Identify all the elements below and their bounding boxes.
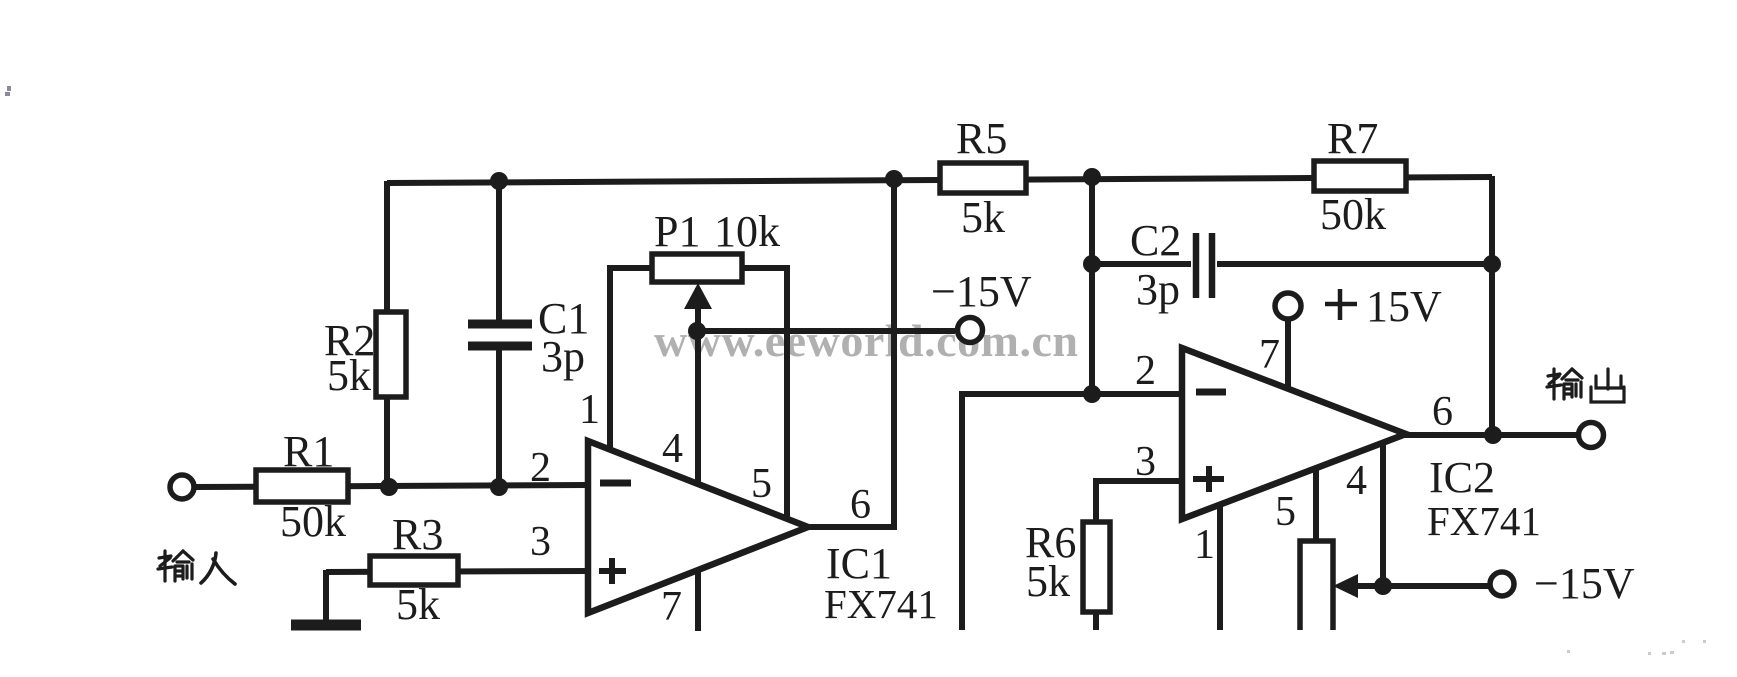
- resistor R1: [256, 470, 348, 502]
- capacitor C2 plates: [1196, 233, 1212, 298]
- wire -15V to P2 arrow: [1356, 583, 1489, 589]
- svg-text:C2: C2: [1130, 216, 1181, 265]
- svg-text:6: 6: [1432, 389, 1453, 435]
- wire C1 bottom vertical: [496, 343, 502, 489]
- svg-text:4: 4: [1346, 458, 1367, 504]
- terminal output: [1579, 423, 1604, 448]
- svg-text:5: 5: [751, 461, 772, 507]
- junction R5/R7 node: [1083, 168, 1101, 186]
- potentiometer P2 body: [1300, 541, 1333, 630]
- svg-text:5k: 5k: [1026, 557, 1070, 606]
- wire R2 branch vertical: [384, 181, 390, 489]
- junction pin4/-15V: [1374, 577, 1392, 595]
- wire -15V to wiper: [698, 328, 955, 334]
- svg-text:R3: R3: [392, 510, 443, 559]
- svg-text:50k: 50k: [1320, 190, 1386, 239]
- svg-text:3p: 3p: [1136, 265, 1180, 314]
- svg-text:R5: R5: [956, 114, 1007, 163]
- svg-text:P1: P1: [654, 207, 700, 256]
- ground: [291, 620, 361, 631]
- svg-text:5: 5: [1275, 489, 1296, 535]
- svg-text:1: 1: [579, 387, 600, 433]
- wire IC2 pin1 stub: [1217, 506, 1223, 630]
- label +15V plus sign: [1325, 289, 1357, 320]
- wire IC1 output and feedback vertical: [806, 177, 894, 527]
- label 输出 (output): [1547, 369, 1624, 402]
- terminal -15V IC1: [958, 318, 983, 343]
- svg-text:5k: 5k: [961, 193, 1005, 242]
- wire IC2 pin5: [1313, 470, 1319, 542]
- svg-text:4: 4: [662, 426, 683, 472]
- resistor R5: [940, 163, 1026, 193]
- wire R6 bottom stub: [1093, 611, 1099, 630]
- wire C2 left: [1092, 261, 1191, 267]
- wire P1 left leg: [610, 268, 656, 452]
- svg-text:7: 7: [1259, 332, 1280, 378]
- junction output node: [1484, 426, 1502, 444]
- wire IC2 output: [1404, 432, 1577, 438]
- svg-text:50k: 50k: [280, 497, 346, 546]
- P2 wiper arrow: [1333, 574, 1358, 598]
- svg-text:www.eeworld.com.cn: www.eeworld.com.cn: [654, 315, 1078, 366]
- wire top feedback rail: [387, 177, 1492, 183]
- resistor R7: [1314, 161, 1406, 191]
- svg-text:R7: R7: [1327, 114, 1378, 163]
- junction IC1 feedback top: [885, 170, 903, 188]
- svg-text:3p: 3p: [541, 332, 585, 381]
- svg-text:1: 1: [1194, 522, 1215, 568]
- junction pin2 node: [1083, 385, 1101, 403]
- IC1 plus symbol: [599, 558, 626, 584]
- terminal -15V IC2: [1490, 572, 1514, 596]
- svg-text:7: 7: [661, 584, 682, 630]
- junction R1/R2: [380, 478, 398, 496]
- wire +15V to pin7: [1285, 316, 1291, 390]
- P1 wiper arrow: [684, 283, 712, 309]
- op-amp IC1: [588, 441, 808, 613]
- resistor R6: [1083, 522, 1110, 612]
- svg-text:2: 2: [530, 445, 551, 491]
- svg-text:FX741: FX741: [824, 581, 938, 627]
- svg-text:−15V: −15V: [931, 267, 1032, 316]
- junction wiper/-15V: [688, 322, 706, 340]
- svg-text:5k: 5k: [327, 351, 371, 400]
- label 输入 (input): [158, 551, 235, 584]
- wire R3 row: [326, 571, 588, 572]
- svg-text:3: 3: [530, 519, 551, 565]
- wire IC1 pin7 stub: [695, 568, 701, 631]
- svg-text:3: 3: [1135, 439, 1156, 485]
- wire R3 left elbow down: [323, 570, 329, 623]
- svg-text:FX741: FX741: [1427, 498, 1541, 544]
- potentiometer P1 body: [652, 254, 742, 282]
- junction C2 tap: [1083, 255, 1101, 273]
- svg-text:−15V: −15V: [1534, 559, 1635, 608]
- wire IC2 pin2 row: [962, 394, 1182, 630]
- op-amp IC2: [1182, 348, 1406, 519]
- terminal +15V: [1275, 293, 1301, 319]
- wire input row: [195, 485, 588, 487]
- IC2 plus symbol: [1193, 466, 1224, 492]
- junction C1 bottom: [490, 478, 508, 496]
- IC2 minus symbol: [1196, 389, 1226, 396]
- svg-text:R1: R1: [283, 427, 334, 476]
- junction C2 right: [1483, 255, 1501, 273]
- svg-text:IC2: IC2: [1429, 453, 1495, 502]
- svg-text:5k: 5k: [396, 580, 440, 629]
- wire IC2 pin4: [1380, 445, 1386, 586]
- wire right feedback vertical: [1489, 176, 1495, 437]
- scan speckles: [5, 86, 11, 96]
- svg-text:2: 2: [1135, 348, 1156, 394]
- IC1 minus symbol: [600, 480, 631, 487]
- wire C2 right: [1217, 261, 1492, 267]
- junction C1 top: [490, 172, 508, 190]
- wire C1 top vertical: [496, 181, 502, 327]
- svg-text:6: 6: [850, 482, 871, 528]
- svg-text:15V: 15V: [1366, 282, 1442, 331]
- wire P1 wiper vertical: [695, 288, 701, 483]
- wire IC2 pin3 row to R6: [1096, 481, 1182, 524]
- wire P1 right leg: [738, 268, 787, 517]
- wire node R5/R7 vertical: [1089, 177, 1095, 396]
- resistor R3: [370, 556, 458, 585]
- svg-text:10k: 10k: [714, 207, 780, 256]
- capacitor C1 plates: [468, 324, 532, 346]
- terminal input: [170, 475, 194, 499]
- resistor R2: [376, 312, 406, 397]
